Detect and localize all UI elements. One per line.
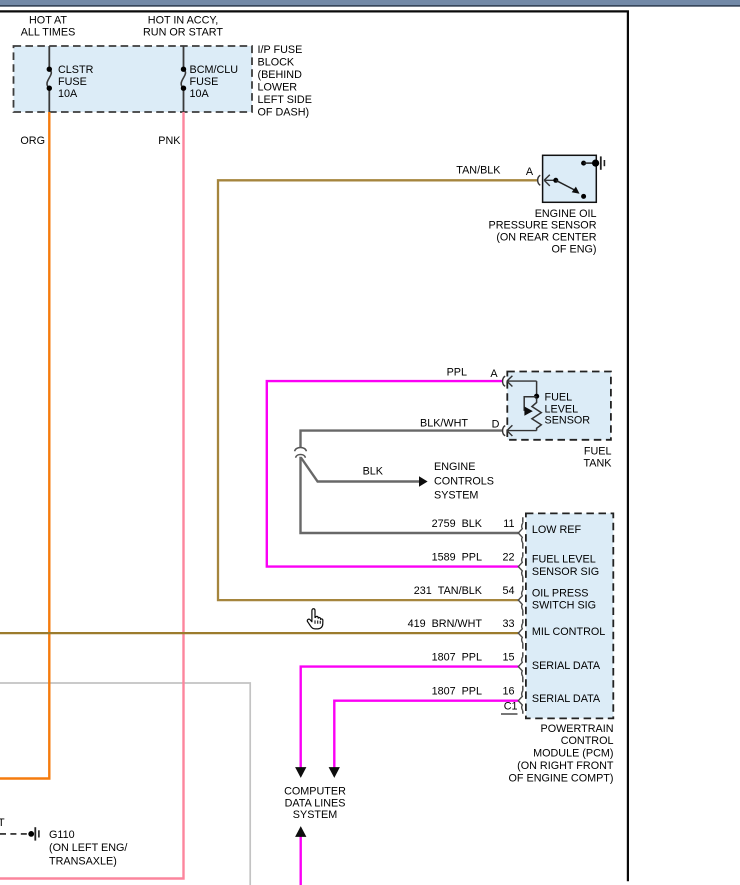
- svg-text:SERIAL DATA: SERIAL DATA: [532, 693, 601, 705]
- svg-text:OIL PRESS: OIL PRESS: [532, 587, 589, 599]
- svg-text:22: 22: [502, 552, 514, 564]
- svg-text:POWERTRAIN: POWERTRAIN: [541, 723, 614, 735]
- svg-text:FUEL LEVEL: FUEL LEVEL: [532, 554, 596, 566]
- svg-text:D: D: [492, 419, 500, 431]
- svg-text:CONTROLS: CONTROLS: [434, 476, 494, 488]
- svg-text:OF ENGINE COMPT): OF ENGINE COMPT): [509, 772, 614, 784]
- svg-text:OF DASH): OF DASH): [258, 107, 310, 119]
- svg-text:419 BRN/WHT: 419 BRN/WHT: [408, 618, 483, 630]
- svg-text:231 TAN/BLK: 231 TAN/BLK: [414, 585, 483, 597]
- svg-text:BLK: BLK: [363, 465, 384, 477]
- svg-text:(ON RIGHT FRONT: (ON RIGHT FRONT: [517, 760, 614, 772]
- svg-text:C1: C1: [504, 701, 518, 713]
- svg-text:BCM/CLU: BCM/CLU: [190, 64, 239, 76]
- svg-text:BLK/WHT: BLK/WHT: [420, 418, 468, 430]
- svg-text:SENSOR: SENSOR: [545, 414, 591, 426]
- svg-text:T: T: [0, 817, 5, 829]
- svg-text:1589 PPL: 1589 PPL: [432, 552, 482, 564]
- svg-text:ALL TIMES: ALL TIMES: [21, 26, 76, 38]
- svg-text:MIL CONTROL: MIL CONTROL: [532, 626, 605, 638]
- svg-text:COMPUTER: COMPUTER: [284, 785, 346, 797]
- svg-text:A: A: [526, 166, 534, 178]
- svg-text:1807 PPL: 1807 PPL: [432, 652, 482, 664]
- svg-text:ENGINE: ENGINE: [434, 461, 475, 473]
- svg-text:DATA LINES: DATA LINES: [285, 797, 346, 809]
- svg-text:1807 PPL: 1807 PPL: [432, 686, 482, 698]
- svg-text:SENSOR SIG: SENSOR SIG: [532, 566, 599, 578]
- svg-text:33: 33: [502, 618, 514, 630]
- svg-text:(ON REAR CENTER: (ON REAR CENTER: [496, 232, 596, 244]
- svg-text:HOT AT: HOT AT: [29, 14, 67, 26]
- svg-text:MODULE (PCM): MODULE (PCM): [533, 748, 613, 760]
- svg-text:LEFT SIDE: LEFT SIDE: [258, 94, 312, 106]
- svg-text:A: A: [490, 368, 498, 380]
- svg-text:(ON LEFT ENG/: (ON LEFT ENG/: [49, 842, 127, 854]
- svg-text:ORG: ORG: [20, 135, 45, 147]
- svg-text:54: 54: [502, 585, 514, 597]
- svg-text:LOW REF: LOW REF: [532, 524, 582, 536]
- svg-text:PPL: PPL: [447, 367, 467, 379]
- svg-text:SYSTEM: SYSTEM: [293, 809, 337, 821]
- svg-text:10A: 10A: [190, 88, 210, 100]
- svg-text:FUEL: FUEL: [545, 392, 573, 404]
- svg-text:15: 15: [502, 652, 514, 664]
- svg-text:G110: G110: [49, 829, 75, 841]
- svg-text:CONTROL: CONTROL: [561, 735, 614, 747]
- svg-text:RUN OR START: RUN OR START: [143, 26, 223, 38]
- svg-text:SERIAL DATA: SERIAL DATA: [532, 660, 601, 672]
- svg-text:TANK: TANK: [584, 457, 613, 469]
- svg-text:SYSTEM: SYSTEM: [434, 490, 478, 502]
- svg-text:PNK: PNK: [158, 135, 181, 147]
- svg-text:FUSE: FUSE: [58, 76, 87, 88]
- svg-text:PRESSURE SENSOR: PRESSURE SENSOR: [489, 220, 597, 232]
- svg-text:FUEL: FUEL: [584, 446, 612, 458]
- svg-text:LOWER: LOWER: [258, 82, 298, 94]
- svg-text:16: 16: [502, 686, 514, 698]
- svg-text:TRANSAXLE): TRANSAXLE): [49, 856, 117, 868]
- svg-text:HOT IN ACCY,: HOT IN ACCY,: [148, 14, 218, 26]
- svg-text:BLOCK: BLOCK: [258, 57, 295, 69]
- svg-text:10A: 10A: [58, 88, 78, 100]
- svg-text:OF ENG): OF ENG): [552, 244, 597, 256]
- svg-text:11: 11: [503, 518, 514, 530]
- svg-text:I/P FUSE: I/P FUSE: [258, 44, 303, 56]
- svg-text:ENGINE OIL: ENGINE OIL: [535, 208, 597, 220]
- svg-text:(BEHIND: (BEHIND: [258, 69, 303, 81]
- svg-text:CLSTR: CLSTR: [58, 64, 94, 76]
- svg-text:2759 BLK: 2759 BLK: [432, 518, 483, 530]
- svg-text:TAN/BLK: TAN/BLK: [456, 165, 501, 177]
- svg-text:FUSE: FUSE: [190, 76, 219, 88]
- svg-text:SWITCH SIG: SWITCH SIG: [532, 600, 596, 612]
